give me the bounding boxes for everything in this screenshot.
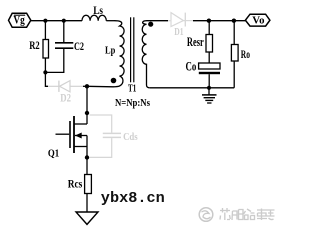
svg-text:Co: Co xyxy=(186,58,197,73)
transformer secondary winding Ns xyxy=(142,21,168,88)
svg-text:T1: T1 xyxy=(128,83,136,95)
wire D2 to drain node to Lp bottom xyxy=(83,85,87,87)
phase dot Ns xyxy=(148,22,153,27)
svg-text:Cds: Cds xyxy=(123,132,138,143)
junction drain node xyxy=(85,84,89,88)
junction ground node xyxy=(207,86,211,90)
svg-text:C2: C2 xyxy=(74,39,84,53)
svg-text:Vg: Vg xyxy=(13,15,24,27)
transformer primary winding Lp xyxy=(105,21,124,87)
ground (secondary) xyxy=(202,88,217,103)
wire top rail (Vg to Ls) xyxy=(31,20,82,22)
diode D1 xyxy=(168,13,193,27)
inductor Ls xyxy=(82,5,106,21)
wire secondary top rail xyxy=(193,20,245,22)
logo icon xyxy=(199,208,213,222)
svg-text:ybx8.cn: ybx8.cn xyxy=(101,190,165,207)
svg-text:Ro: Ro xyxy=(241,49,250,61)
wire snubber node down to D2 row xyxy=(45,72,48,86)
svg-text:D2: D2 xyxy=(60,93,71,105)
wire secondary bottom rail xyxy=(150,87,234,89)
junction Q1 drain node xyxy=(85,111,89,115)
resistor Rcs xyxy=(68,158,92,213)
junction Ro tap xyxy=(232,19,236,23)
transistor Q1 (NMOS) xyxy=(48,113,87,160)
phase dot Lp xyxy=(111,78,117,84)
resistor Ro xyxy=(231,21,250,88)
junction node C2 tap xyxy=(62,19,66,23)
svg-text:Vo: Vo xyxy=(252,14,265,26)
junction Q1 source node xyxy=(85,155,89,159)
svg-text:Rcs: Rcs xyxy=(68,176,83,190)
wire drain node to Q1 xyxy=(86,86,88,113)
svg-text:N=Np:Ns: N=Np:Ns xyxy=(115,97,150,109)
node Vo xyxy=(245,14,270,26)
svg-text:Lp: Lp xyxy=(105,45,115,57)
capacitor Cds xyxy=(90,115,122,157)
junction snubber node xyxy=(43,70,47,74)
svg-text:R2: R2 xyxy=(29,38,40,52)
junction node R2 tap xyxy=(43,19,47,23)
svg-text:Resr: Resr xyxy=(187,34,204,49)
junction Resr tap xyxy=(207,19,211,23)
node Vg xyxy=(9,13,31,27)
ground (primary, triangle) xyxy=(76,212,98,224)
svg-text:Q1: Q1 xyxy=(48,149,59,160)
logo text (CJK watermark) xyxy=(220,208,275,220)
wire Ls to transformer xyxy=(106,20,114,22)
svg-text:D1: D1 xyxy=(174,27,183,38)
transformer core T1 xyxy=(131,17,134,82)
resistor Resr xyxy=(187,21,213,63)
svg-text:Ls: Ls xyxy=(93,5,103,17)
diode D2 xyxy=(48,81,83,92)
capacitor C2 xyxy=(46,21,84,73)
capacitor Co xyxy=(186,58,221,88)
resistor R2 xyxy=(29,21,48,73)
